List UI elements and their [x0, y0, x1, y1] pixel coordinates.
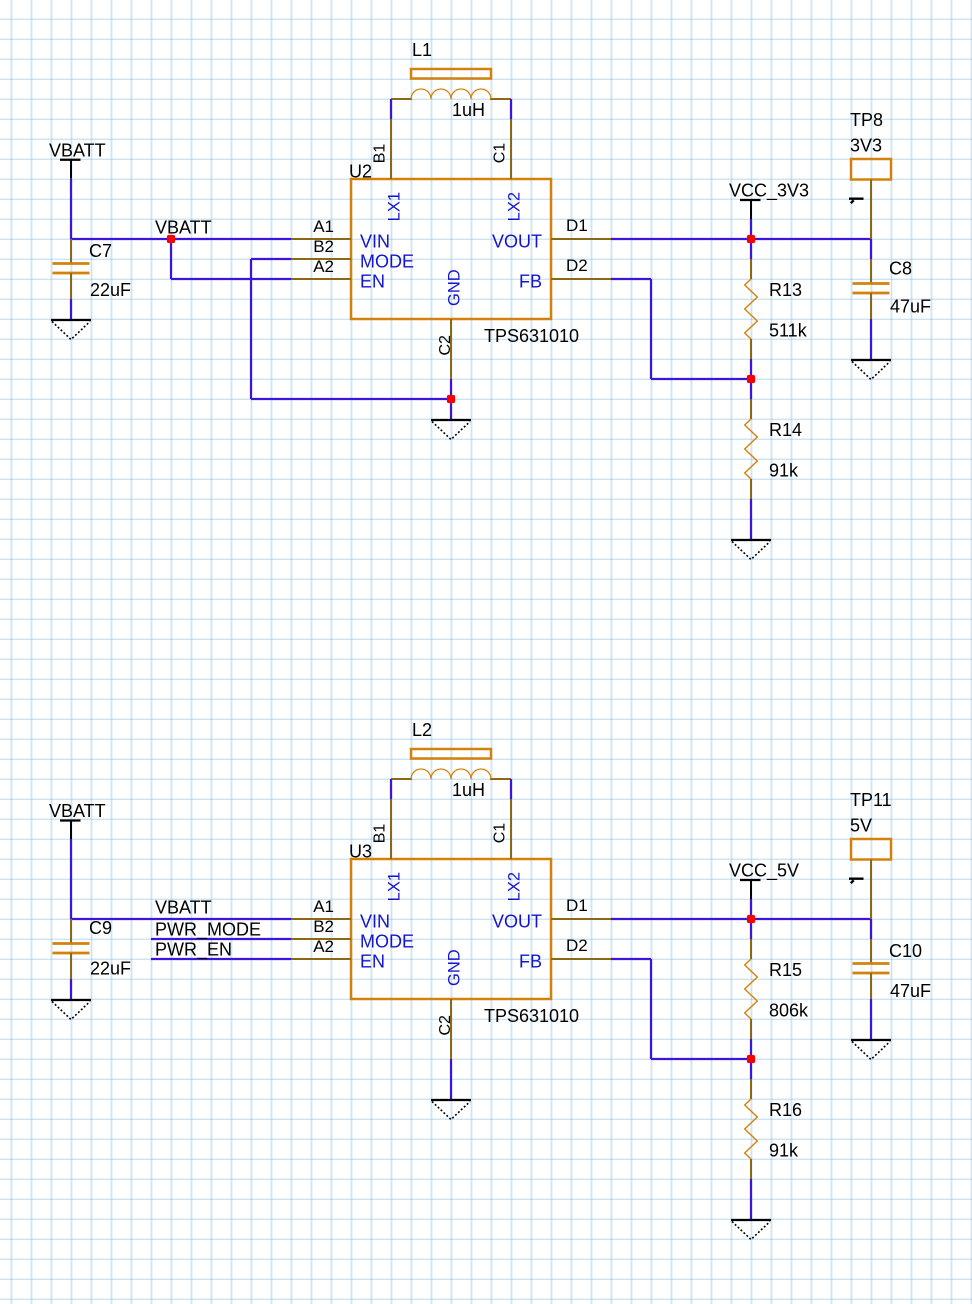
svg-text:VCC_5V: VCC_5V [729, 861, 799, 882]
wire power port to rail [750, 219, 752, 239]
svg-text:VBATT: VBATT [49, 140, 106, 160]
wire C10 to ground [870, 999, 872, 1039]
wire junction down to EN row [170, 239, 172, 279]
test point TP11 pin number 1 [849, 879, 864, 884]
svg-text:TP8: TP8 [850, 110, 883, 130]
power port VCC_3V3 [729, 181, 809, 220]
capacitor C8 pin 1 [870, 259, 872, 283]
svg-text:D2: D2 [566, 936, 588, 955]
wire FB vertical [650, 959, 652, 1059]
svg-text:511k: 511k [769, 321, 808, 341]
svg-text:VOUT: VOUT [492, 912, 542, 932]
power port VBATT [49, 801, 106, 840]
op-amp converter IC U3 TPS631010 body [351, 859, 551, 999]
ground below C10 [851, 1040, 891, 1060]
svg-text:3V3: 3V3 [850, 136, 882, 156]
svg-text:TPS631010: TPS631010 [484, 1006, 579, 1026]
power port VBATT [49, 140, 106, 179]
svg-text:B2: B2 [313, 237, 334, 256]
test point TP8 pin number 1 [849, 199, 864, 204]
svg-text:TPS631010: TPS631010 [484, 326, 579, 346]
svg-text:LX2: LX2 [506, 192, 524, 221]
svg-text:VCC_3V3: VCC_3V3 [729, 181, 809, 202]
svg-text:1uH: 1uH [452, 780, 485, 800]
svg-text:A2: A2 [313, 937, 334, 956]
U3 pin A1 (VIN) [291, 918, 351, 920]
resistor R14 zigzag body [745, 419, 758, 479]
svg-text:5V: 5V [850, 816, 872, 836]
capacitor C10 plates [853, 964, 890, 974]
svg-text:C7: C7 [89, 241, 112, 261]
U3 pin C2 (GND) [450, 999, 452, 1059]
svg-text:U2: U2 [349, 162, 372, 182]
inductor L2 pin 2 [490, 778, 511, 780]
U2 pin D2 (FB) [551, 278, 611, 280]
wire VBATT to pin A1 [71, 238, 291, 240]
wire R16 to ground [750, 1179, 752, 1219]
wire R13 to FB junction [750, 359, 752, 379]
resistor R15 pin 2 [750, 1019, 752, 1039]
svg-text:1uH: 1uH [452, 100, 485, 120]
U2 pin B1 (LX1) [390, 119, 392, 179]
wire inductor right to pin C1 [510, 99, 512, 119]
capacitor C9 plates [53, 944, 90, 954]
svg-text:GND: GND [446, 949, 464, 986]
svg-text:U3: U3 [349, 842, 372, 862]
resistor R15 pin 1 [750, 939, 752, 959]
svg-text:C1: C1 [492, 143, 509, 164]
wire VBATT vertical from power port [70, 839, 72, 919]
wire FB to divider junction [651, 378, 751, 380]
capacitor C10 pin 2 [870, 973, 872, 999]
inductor L1 coil [411, 89, 491, 99]
svg-text:C9: C9 [89, 918, 112, 938]
inductor L1 body bar [411, 69, 491, 79]
U3 pin B2 (MODE) [291, 938, 351, 940]
wire R15 to FB junction [750, 1039, 752, 1059]
svg-text:B2: B2 [313, 917, 334, 936]
wire rail to R13 [750, 239, 752, 259]
svg-text:FB: FB [519, 272, 542, 292]
svg-text:MODE: MODE [360, 932, 414, 952]
U3 pin B1 (LX1) [390, 799, 392, 859]
ground below C8 [851, 360, 891, 380]
capacitor C8 pin 2 [870, 293, 872, 319]
inductor L2 pin 1 [391, 778, 412, 780]
ground below C9 [51, 1000, 91, 1020]
capacitor C7 pin 2 [70, 273, 72, 299]
wire FB vertical [650, 279, 652, 379]
resistor R13 pin 1 [750, 259, 752, 279]
wire VBATT to pin A1 [71, 918, 291, 920]
svg-text:R15: R15 [769, 960, 802, 980]
ground below U2 GND pin [431, 420, 471, 440]
junction VCC_5V node [747, 915, 755, 923]
wire FB to divider junction [651, 1058, 751, 1060]
capacitor C9 pin 2 [70, 953, 72, 979]
wire C9 to ground [70, 979, 72, 999]
inductor L2 coil [411, 769, 491, 779]
wire GND pin to ground [450, 379, 452, 419]
op-amp converter IC U2 TPS631010 body [351, 179, 551, 319]
svg-text:C8: C8 [889, 259, 912, 279]
test point TP8 pin 1 [870, 180, 872, 240]
svg-text:C1: C1 [492, 823, 509, 844]
svg-text:VBATT: VBATT [49, 801, 106, 821]
svg-text:MODE: MODE [360, 252, 414, 272]
resistor R14 pin 2 [750, 479, 752, 499]
svg-text:EN: EN [360, 952, 385, 972]
svg-text:LX1: LX1 [386, 872, 404, 901]
capacitor C10 pin 1 [870, 939, 872, 963]
inductor L1 pin 1 [391, 98, 412, 100]
svg-text:A2: A2 [313, 257, 334, 276]
ground below R16 [731, 1220, 771, 1240]
wire MODE vertical down [250, 259, 252, 399]
svg-text:PWR_MODE: PWR_MODE [155, 920, 261, 941]
wire C7 to ground [70, 299, 72, 319]
wire GND pin to ground [450, 1059, 452, 1099]
svg-text:R13: R13 [769, 280, 802, 300]
resistor R14 pin 1 [750, 399, 752, 419]
power port VCC_5V [729, 861, 799, 900]
junction GND node [447, 395, 455, 403]
svg-text:D1: D1 [566, 896, 588, 915]
svg-text:D2: D2 [566, 256, 588, 275]
capacitor C8 plates [853, 284, 890, 294]
svg-text:L1: L1 [412, 40, 432, 60]
svg-text:L2: L2 [412, 720, 432, 740]
svg-text:47uF: 47uF [890, 981, 931, 1001]
svg-text:TP11: TP11 [850, 790, 892, 810]
wire rail down to TP11/C10 [870, 919, 872, 939]
U2 pin B2 (MODE) [291, 258, 351, 260]
svg-text:EN: EN [360, 272, 385, 292]
ground below U3 GND pin [431, 1100, 471, 1120]
U3 pin A2 (EN) [291, 958, 351, 960]
svg-text:VOUT: VOUT [492, 232, 542, 252]
U2 pin D1 (VOUT) [551, 238, 611, 240]
svg-text:R14: R14 [769, 420, 802, 440]
U2 pin C2 (GND) [450, 319, 452, 379]
svg-text:22uF: 22uF [90, 959, 131, 979]
resistor R13 zigzag body [745, 279, 758, 339]
svg-text:C2: C2 [437, 1015, 454, 1036]
svg-text:22uF: 22uF [90, 280, 131, 300]
wire power port to rail [750, 899, 752, 919]
wire FB junction to R16 [750, 1059, 752, 1079]
test point TP11 pin 1 [870, 860, 872, 920]
wire PWR_MODE to pin B2 [151, 938, 291, 940]
wire inductor left to pin B1 [390, 99, 392, 119]
inductor L1 pin 2 [490, 98, 511, 100]
resistor R16 zigzag body [745, 1099, 758, 1159]
U3 pin C1 (LX2) [510, 799, 512, 859]
wire VBATT vertical from power port [70, 179, 72, 239]
svg-text:C2: C2 [437, 335, 454, 356]
wire inductor left to pin B1 [390, 779, 392, 799]
svg-text:91k: 91k [769, 1141, 799, 1161]
resistor R16 pin 2 [750, 1159, 752, 1179]
wire C8 to ground [870, 319, 872, 359]
resistor R13 pin 2 [750, 339, 752, 359]
svg-text:A1: A1 [313, 217, 334, 236]
wire PWR_EN to pin A2 [151, 958, 291, 960]
wire rail to R15 [750, 919, 752, 939]
capacitor C9 pin 1 [70, 919, 72, 943]
U2 pin A2 (EN) [291, 278, 351, 280]
svg-text:FB: FB [519, 952, 542, 972]
svg-text:D1: D1 [566, 216, 588, 235]
ground below R14 [731, 540, 771, 560]
U3 pin D1 (VOUT) [551, 918, 611, 920]
wire FB pin out [611, 958, 651, 960]
test point TP11 body [851, 839, 891, 860]
wire inductor right to pin C1 [510, 779, 512, 799]
svg-text:VIN: VIN [360, 912, 390, 932]
ground below C7 [51, 320, 91, 340]
test point TP8 body [851, 159, 891, 180]
wire VOUT rail [611, 918, 871, 920]
wire to pin B2 (MODE) [251, 258, 291, 260]
svg-text:VBATT: VBATT [155, 218, 212, 238]
svg-text:R16: R16 [769, 1100, 802, 1120]
wire R14 to ground [750, 499, 752, 539]
svg-text:B1: B1 [372, 824, 389, 844]
junction VBATT node [167, 235, 175, 243]
svg-text:VIN: VIN [360, 232, 390, 252]
svg-text:GND: GND [446, 269, 464, 306]
wire FB pin out [611, 278, 651, 280]
wire to pin A2 (EN) [171, 278, 291, 280]
wire MODE to GND node [251, 398, 451, 400]
U2 pin C1 (LX2) [510, 119, 512, 179]
svg-text:A1: A1 [313, 897, 334, 916]
wire VOUT rail [611, 238, 871, 240]
resistor R16 pin 1 [750, 1079, 752, 1099]
capacitor C7 plates [53, 264, 90, 274]
wire FB junction to R14 [750, 379, 752, 399]
svg-text:47uF: 47uF [890, 297, 931, 317]
svg-text:91k: 91k [769, 461, 799, 481]
wire rail down to TP8/C8 [870, 239, 872, 259]
svg-text:LX2: LX2 [506, 872, 524, 901]
svg-text:LX1: LX1 [386, 192, 404, 221]
resistor R15 zigzag body [745, 959, 758, 1019]
svg-text:PWR_EN: PWR_EN [155, 940, 232, 961]
svg-text:B1: B1 [372, 144, 389, 164]
U2 pin A1 (VIN) [291, 238, 351, 240]
capacitor C7 pin 1 [70, 239, 72, 263]
junction FB node [747, 375, 755, 383]
junction VCC_3V3 node [747, 235, 755, 243]
svg-text:806k: 806k [769, 1001, 809, 1021]
U3 pin D2 (FB) [551, 958, 611, 960]
svg-text:VBATT: VBATT [155, 898, 212, 918]
junction FB node [747, 1055, 755, 1063]
svg-text:C10: C10 [889, 941, 922, 961]
inductor L2 body bar [411, 749, 491, 759]
